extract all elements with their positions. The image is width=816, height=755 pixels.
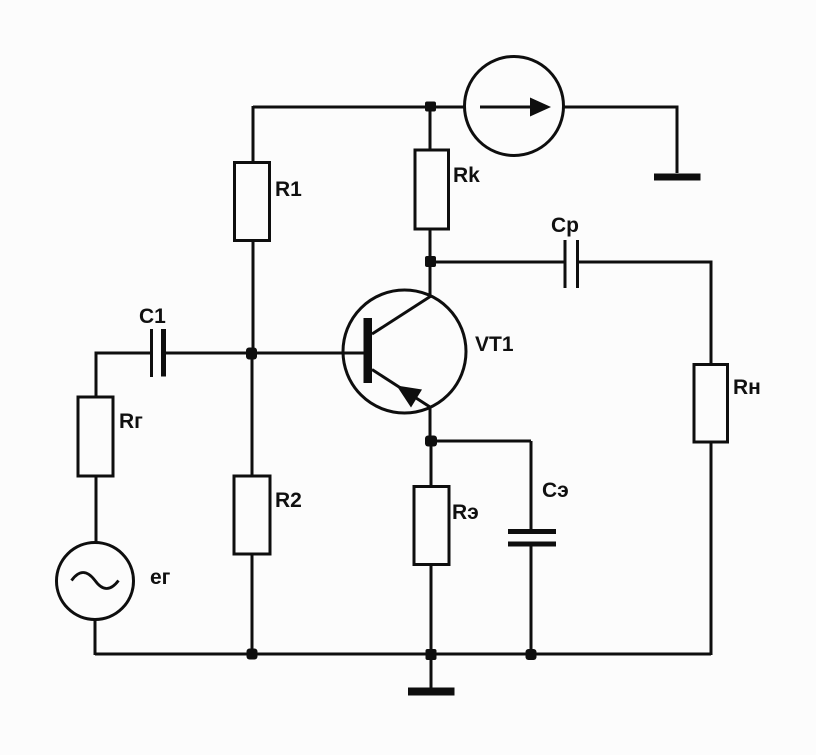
wire source bottom lead xyxy=(94,619,97,655)
resistor Rg xyxy=(78,397,113,476)
wire Re top lead xyxy=(430,441,433,487)
svg-text:Rk: Rk xyxy=(453,164,480,187)
resistor R2 xyxy=(234,476,270,554)
wire base node to R2 xyxy=(251,353,254,477)
source eg xyxy=(57,543,134,620)
wire collector lead xyxy=(429,261,432,297)
svg-text:R2: R2 xyxy=(275,489,302,512)
resistor Rk xyxy=(415,150,449,229)
svg-text:Rг: Rг xyxy=(119,410,143,433)
wire bottom ground lead xyxy=(430,654,433,689)
node bottom rail R2 xyxy=(247,649,258,660)
wire C1 to base xyxy=(164,352,365,355)
resistor R1 xyxy=(235,163,270,241)
svg-text:VT1: VT1 xyxy=(475,333,514,356)
transistor VT1 xyxy=(343,290,466,413)
node bottom rail Ce xyxy=(526,649,537,660)
svg-text:R1: R1 xyxy=(275,178,302,201)
wire emitter node to Ce xyxy=(430,440,531,443)
node collector / Cp xyxy=(425,256,436,267)
wire collector node to Cp xyxy=(430,261,565,264)
node bottom rail ground xyxy=(426,649,437,660)
svg-text:Rн: Rн xyxy=(733,376,761,399)
svg-text:ег: ег xyxy=(150,566,171,589)
wire Rk bottom lead xyxy=(429,229,432,262)
wire top rail R1 to current source xyxy=(253,106,464,109)
wire current source to ground xyxy=(564,107,677,173)
wire Ce bottom lead xyxy=(530,545,533,655)
ground bottom xyxy=(408,688,455,696)
node emitter / Ce xyxy=(425,436,437,447)
wire Rg bottom lead xyxy=(95,476,98,544)
resistor Re xyxy=(414,487,449,565)
capacitor Cp xyxy=(565,240,578,288)
capacitor C1 xyxy=(152,329,164,377)
wire Re bottom lead xyxy=(430,564,433,655)
svg-text:Rэ: Rэ xyxy=(452,501,479,524)
resistor Rn xyxy=(694,365,728,443)
wire emitter lead xyxy=(429,406,432,442)
svg-text:Cэ: Cэ xyxy=(542,479,569,502)
wire R2 bottom lead xyxy=(251,554,254,655)
capacitor Ce xyxy=(508,532,556,545)
current source I1 xyxy=(465,57,564,156)
wire R1 top lead xyxy=(252,106,255,163)
svg-text:C1: C1 xyxy=(139,305,166,328)
wire R1 bottom lead xyxy=(252,240,255,354)
wire bottom rail xyxy=(95,653,711,656)
node top rail / Rk xyxy=(425,102,436,112)
wire base left segment to C1 xyxy=(96,353,151,397)
wire Rk top lead xyxy=(429,106,432,151)
node base / C1 xyxy=(246,348,257,360)
wire Ce top lead xyxy=(530,441,533,530)
svg-text:Ср: Ср xyxy=(551,214,579,237)
ground top right xyxy=(654,174,701,181)
wire Rh bottom lead xyxy=(710,441,713,655)
wire Cp to Rh xyxy=(578,262,711,365)
